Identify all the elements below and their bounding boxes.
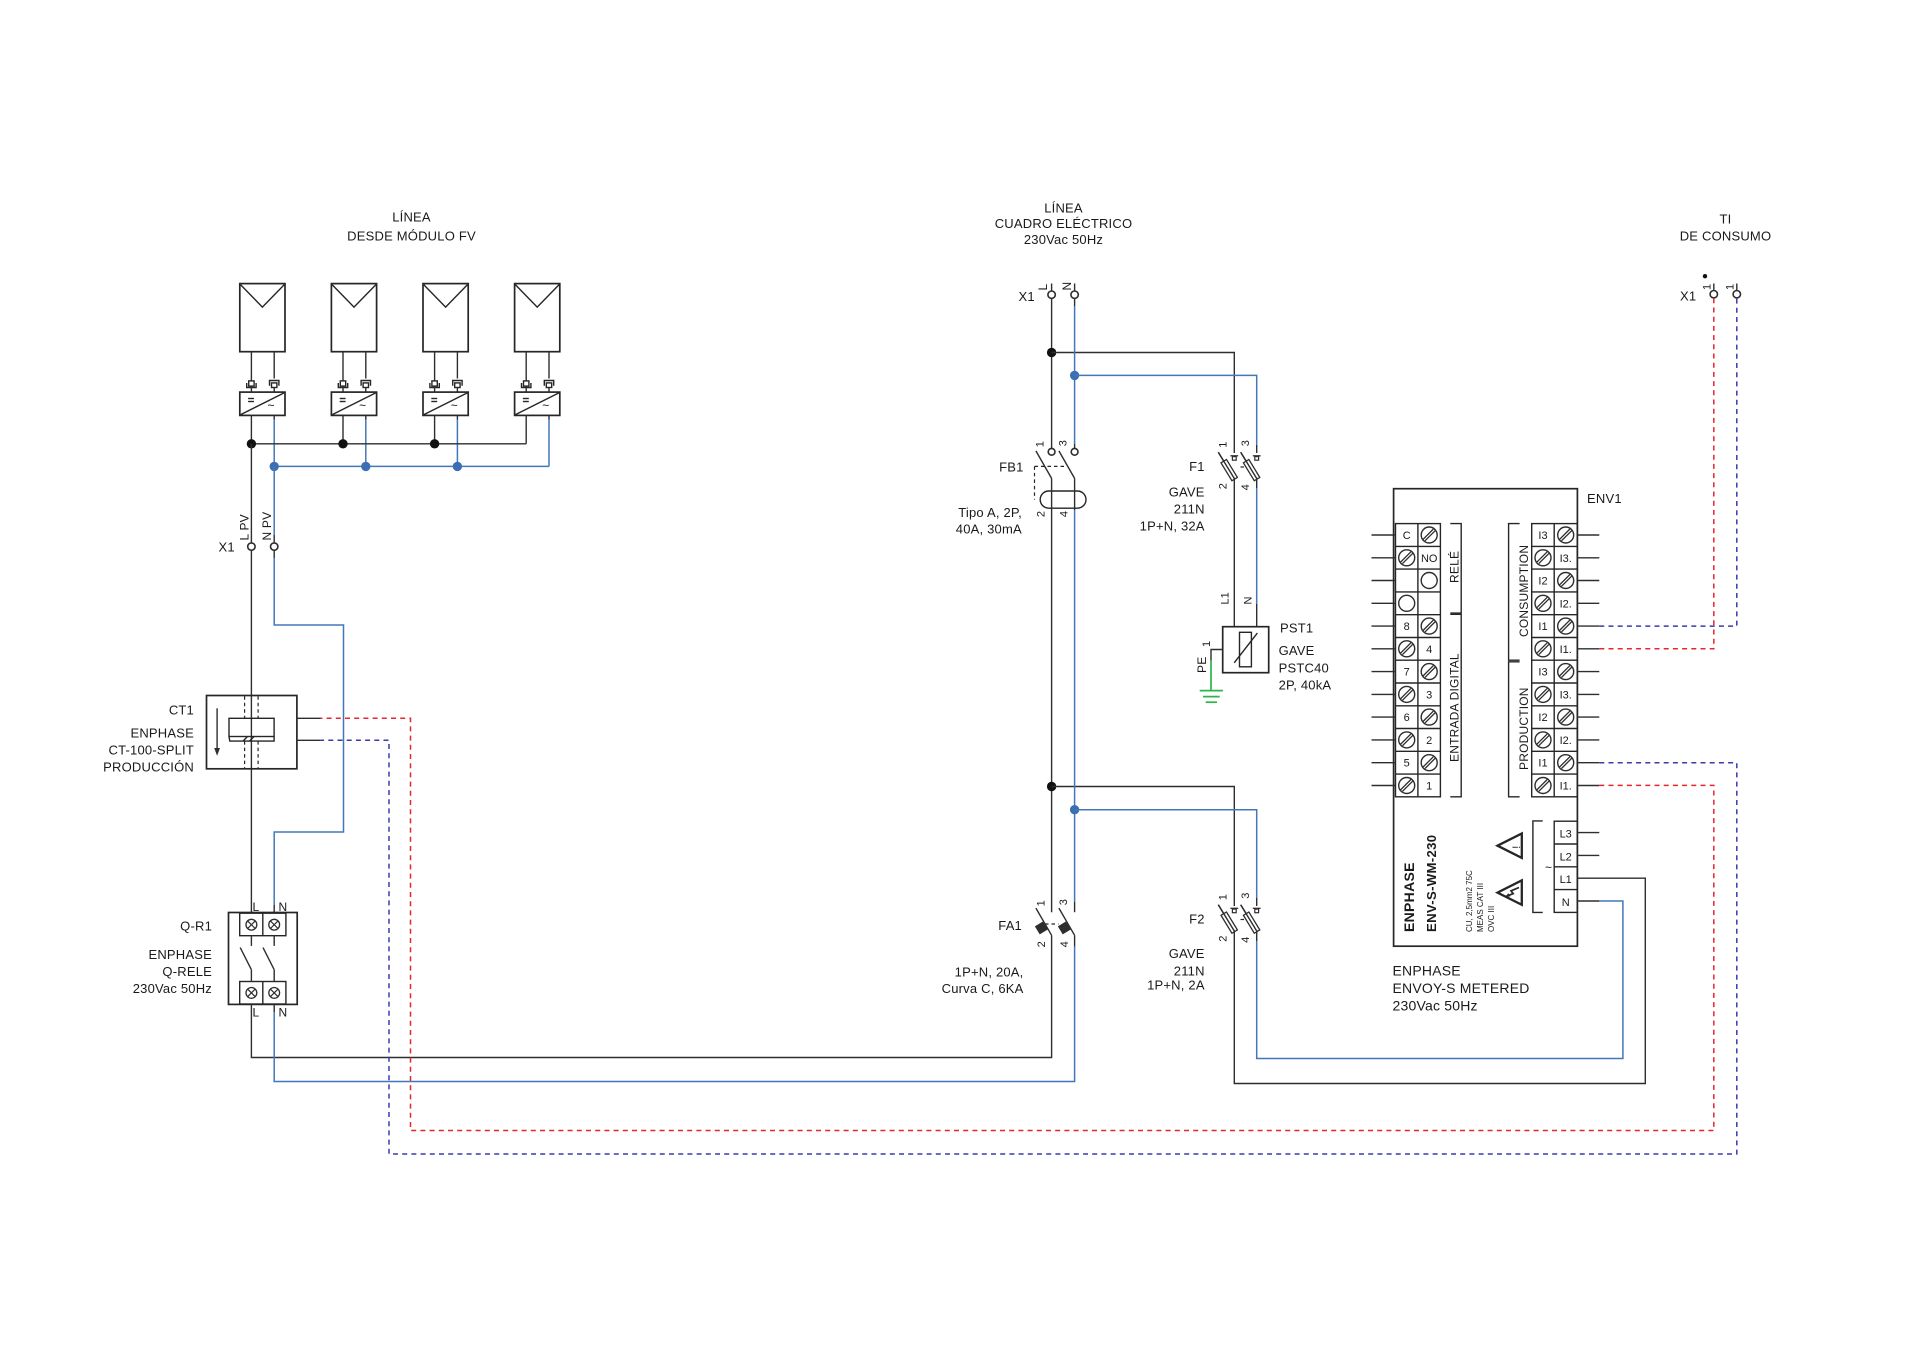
svg-text:ENPHASE: ENPHASE <box>1393 963 1461 979</box>
svg-text:L2: L2 <box>1560 851 1572 863</box>
wire: L from X1 to FB1 <box>1051 298 1053 448</box>
svg-text:FA1: FA1 <box>998 918 1022 933</box>
svg-text:L1: L1 <box>1560 874 1572 886</box>
PST1 pin 1 to PE <box>1201 641 1223 661</box>
stub left row 3 <box>1372 580 1396 582</box>
PV module PV1 with microinverter W1 <box>240 284 285 416</box>
node: N branch to F1 (blue) <box>1070 371 1079 380</box>
wire: L PV down to X1 <box>250 444 252 543</box>
bracket ENTRADA DIGITAL <box>1448 614 1462 797</box>
breaker FA1 (1P+N 20A curva C) <box>1035 899 1075 947</box>
svg-text:4: 4 <box>1059 511 1071 517</box>
svg-text:1P+N, 20A,: 1P+N, 20A, <box>955 965 1024 980</box>
screw terminal right row 2 <box>1535 550 1551 566</box>
screw terminal right row 5 <box>1558 618 1574 634</box>
screw terminal left row 8 <box>1399 686 1415 702</box>
svg-text:I1.: I1. <box>1560 644 1572 656</box>
wire: F2 L1 out to ENV1 L1 <box>1234 878 1645 1083</box>
svg-text:1: 1 <box>1725 284 1737 290</box>
svg-text:RELÉ: RELÉ <box>1447 551 1462 583</box>
title: linea cuadro electrico <box>995 201 1133 248</box>
svg-text:L PV: L PV <box>237 514 251 540</box>
svg-text:ENVOY-S METERED: ENVOY-S METERED <box>1393 980 1530 996</box>
stub right row 10 <box>1577 739 1599 741</box>
stub right row 2 <box>1577 557 1599 559</box>
wire: L PV rail to Q-R1 <box>250 550 252 913</box>
svg-text:PE: PE <box>1195 657 1209 673</box>
svg-text:I3.: I3. <box>1560 553 1572 565</box>
svg-text:GAVE: GAVE <box>1169 946 1205 961</box>
ENV1 left terminal strip (RELE / ENTRADA DIGITAL) <box>1396 524 1441 797</box>
node: L branch to F2 <box>1047 782 1056 791</box>
svg-text:DESDE MÓDULO FV: DESDE MÓDULO FV <box>347 229 476 244</box>
ENV1 right terminal strip (CONSUMPTION / PRODUCTION) <box>1532 524 1578 797</box>
svg-text:1: 1 <box>1426 781 1432 793</box>
screw terminal left row 12 <box>1399 778 1415 794</box>
terminal X1 L PV <box>237 514 255 550</box>
svg-text:X1: X1 <box>1019 289 1035 304</box>
svg-text:MEAS CAT III: MEAS CAT III <box>1476 883 1485 932</box>
svg-text:N: N <box>1243 597 1255 605</box>
ENV1 Envoy-S box <box>1394 489 1578 947</box>
svg-text:230Vac 50Hz: 230Vac 50Hz <box>1393 998 1478 1014</box>
wire: FB1 N out down to FA1 (blue) <box>1074 478 1076 912</box>
wire: Q-R1 L output to FA1 <box>251 935 1051 1057</box>
screw terminal right row 1 <box>1558 527 1574 543</box>
terminal X1 TI-1 <box>1702 284 1718 298</box>
stub left row 9 <box>1372 716 1396 718</box>
svg-text:4: 4 <box>1240 484 1252 490</box>
svg-text:4: 4 <box>1059 941 1071 947</box>
terminal X1 TI-2 <box>1725 284 1741 298</box>
svg-text:8: 8 <box>1404 621 1410 633</box>
wire: branch L to F2 <box>1052 787 1235 907</box>
wire inverter 2 L output <box>342 415 344 443</box>
wire: branch L to F1 <box>1052 353 1235 454</box>
svg-text:~: ~ <box>1545 861 1552 875</box>
label F2 block <box>1147 912 1205 993</box>
screw terminal left row 9 <box>1421 709 1437 725</box>
label FB1 block <box>956 460 1024 537</box>
svg-text:ENV-S-WM-230: ENV-S-WM-230 <box>1424 835 1439 932</box>
screw terminal right row 10 <box>1535 732 1551 748</box>
svg-text:X1: X1 <box>219 540 235 555</box>
svg-text:I1: I1 <box>1538 621 1547 633</box>
round terminal left row 4 <box>1399 595 1415 611</box>
ground PE <box>1195 657 1223 703</box>
svg-text:2: 2 <box>1426 735 1432 747</box>
svg-text:4: 4 <box>1426 644 1432 656</box>
stub left row 4 <box>1372 602 1396 604</box>
round terminal left row 3 <box>1421 573 1437 589</box>
node: L branch to F1 <box>1047 348 1056 357</box>
screw terminal left row 11 <box>1421 755 1437 771</box>
fuse F1 pole 2 <box>1241 452 1261 481</box>
wire: branch N to F1 (blue) <box>1075 375 1257 453</box>
F1 pin labels <box>1217 440 1252 490</box>
svg-text:C: C <box>1403 530 1411 542</box>
svg-text:3: 3 <box>1058 899 1070 905</box>
svg-text:1: 1 <box>1201 641 1213 647</box>
label FA1 block <box>942 918 1024 996</box>
stub right row 7 <box>1577 671 1599 673</box>
svg-text:I1.: I1. <box>1560 781 1572 793</box>
ENV1 L3 L2 L1 N terminal strip <box>1554 821 1577 912</box>
svg-text:I3: I3 <box>1538 667 1547 679</box>
fuse F1 pole 1 <box>1218 452 1238 481</box>
node: N bus junction 1 <box>270 462 279 471</box>
svg-text:1: 1 <box>1217 442 1229 448</box>
svg-text:4: 4 <box>1240 937 1252 943</box>
dashed red: production CT I1* to CT1 <box>321 718 1714 1130</box>
wire inverter 3 L output <box>434 415 436 443</box>
svg-text:2: 2 <box>1036 941 1048 947</box>
dashed blue: consumption CT I1 to TI terminal 2 <box>1599 298 1737 626</box>
svg-text:I2.: I2. <box>1560 598 1572 610</box>
wire: F2 N out to ENV1 N (blue) <box>1257 901 1623 1059</box>
svg-text:F1: F1 <box>1189 459 1205 474</box>
svg-text:7: 7 <box>1404 667 1410 679</box>
bracket PRODUCTION <box>1509 662 1531 797</box>
svg-text:N: N <box>279 1006 288 1020</box>
wire: Q-R1 N output to FA1 (blue) <box>274 935 1074 1081</box>
label PST1 block <box>1279 621 1332 693</box>
wire inverter 3 N output <box>456 415 458 466</box>
svg-text:1: 1 <box>1702 284 1714 290</box>
svg-text:FB1: FB1 <box>999 460 1023 475</box>
svg-text:211N: 211N <box>1174 964 1205 979</box>
wire: AC L bus from inverters <box>251 443 526 445</box>
svg-text:CT1: CT1 <box>169 703 194 718</box>
stub left row 8 <box>1372 693 1396 695</box>
svg-text:3: 3 <box>1240 440 1252 446</box>
stub right row 11 <box>1577 762 1599 764</box>
stub L3 <box>1577 832 1599 834</box>
svg-text:GAVE: GAVE <box>1279 643 1315 658</box>
svg-text:TI: TI <box>1720 212 1732 227</box>
stub left row 7 <box>1372 671 1396 673</box>
wire inverter 4 L output <box>525 415 527 443</box>
svg-text:I2.: I2. <box>1560 735 1572 747</box>
node: N bus junction 3 <box>453 462 462 471</box>
stub L2 <box>1577 854 1599 856</box>
svg-text:OVC III: OVC III <box>1487 906 1496 932</box>
svg-text:CONSUMPTION: CONSUMPTION <box>1517 545 1531 637</box>
svg-text:L1: L1 <box>1220 592 1232 604</box>
svg-text:Q-RELE: Q-RELE <box>162 964 212 979</box>
node: N branch to F2 (blue) <box>1070 805 1079 814</box>
svg-text:ENPHASE: ENPHASE <box>1401 862 1417 932</box>
stub right row 1 <box>1577 534 1599 536</box>
svg-text:ENPHASE: ENPHASE <box>148 947 212 962</box>
warning triangle exclamation <box>1498 834 1524 858</box>
bracket RELE <box>1447 524 1462 614</box>
PV module PV2 with microinverter W2 <box>331 284 376 416</box>
label L1 N at PST1 <box>1220 592 1255 604</box>
node: L bus junction 3 <box>430 439 439 448</box>
wire: N PV bypass around CT1 (blue) <box>274 550 343 913</box>
label Q-R1 block <box>133 919 212 997</box>
svg-text:Q-R1: Q-R1 <box>180 919 212 934</box>
svg-text:I2: I2 <box>1538 576 1547 588</box>
svg-text:2: 2 <box>1035 511 1047 517</box>
stub left row 11 <box>1372 762 1396 764</box>
svg-text:I1: I1 <box>1538 758 1547 770</box>
dashed red: consumption CT I1* to TI terminal 1 <box>1599 298 1714 649</box>
svg-text:Tipo A, 2P,: Tipo A, 2P, <box>958 505 1022 520</box>
screw terminal right row 7 <box>1558 664 1574 680</box>
svg-text:N PV: N PV <box>260 512 274 541</box>
svg-text:1P+N, 32A: 1P+N, 32A <box>1140 519 1205 534</box>
svg-text:I2: I2 <box>1538 712 1547 724</box>
svg-text:230Vac 50Hz: 230Vac 50Hz <box>1024 232 1103 247</box>
surge protector PST1 (GAVE PSTC40) <box>1223 627 1269 673</box>
screw terminal right row 11 <box>1558 755 1574 771</box>
svg-text:3: 3 <box>1426 689 1432 701</box>
svg-text:PRODUCTION: PRODUCTION <box>1517 687 1531 770</box>
PV module PV3 with microinverter W3 <box>423 284 468 416</box>
svg-text:L3: L3 <box>1560 829 1572 841</box>
fuse F2 pole 1 <box>1218 905 1238 934</box>
wire: branch N to F2 (blue) <box>1075 810 1257 906</box>
svg-text:L: L <box>1036 284 1050 291</box>
svg-text:2: 2 <box>1217 483 1229 489</box>
stub right row 12 <box>1577 785 1599 787</box>
screw terminal right row 9 <box>1558 709 1574 725</box>
svg-text:GAVE: GAVE <box>1169 485 1205 500</box>
wire inverter 4 N output <box>548 415 550 466</box>
wire: N from X1 to FB1 (blue) <box>1074 298 1076 448</box>
svg-text:ENPHASE: ENPHASE <box>130 726 194 741</box>
svg-text:1: 1 <box>1034 441 1046 447</box>
F1 pole linkage dash <box>1241 466 1247 468</box>
stub right row 8 <box>1577 693 1599 695</box>
svg-text:40A, 30mA: 40A, 30mA <box>956 522 1022 537</box>
svg-text:2P, 40kA: 2P, 40kA <box>1279 678 1332 693</box>
screw terminal left row 5 <box>1421 618 1437 634</box>
label CT1 block <box>103 703 194 775</box>
svg-text:230Vac 50Hz: 230Vac 50Hz <box>133 981 212 996</box>
stub right row 6 <box>1577 648 1599 650</box>
screw terminal left row 2 <box>1399 550 1415 566</box>
svg-text:1P+N, 2A: 1P+N, 2A <box>1147 978 1205 993</box>
svg-text:PSTC40: PSTC40 <box>1279 660 1329 675</box>
stub right row 4 <box>1577 602 1599 604</box>
svg-text:Curva C, 6KA: Curva C, 6KA <box>942 981 1024 996</box>
bracket CONSUMPTION <box>1509 524 1531 661</box>
stub right row 9 <box>1577 716 1599 718</box>
wire inverter 2 N output <box>365 415 367 466</box>
node: L bus junction 1 <box>247 439 256 448</box>
svg-text:PRODUCCIÓN: PRODUCCIÓN <box>103 760 194 775</box>
title: linea desde modulo FV <box>347 210 476 244</box>
svg-text:F2: F2 <box>1189 912 1205 927</box>
svg-text:ENTRADA DIGITAL: ENTRADA DIGITAL <box>1448 653 1462 762</box>
PV module PV4 with microinverter W4 <box>515 284 560 416</box>
node: L bus junction 2 <box>338 439 347 448</box>
wire: CT1 secondary stub top <box>297 717 321 719</box>
F2 pin labels <box>1217 893 1252 943</box>
wire inverter 1 L output <box>250 415 252 443</box>
screw terminal right row 4 <box>1535 595 1551 611</box>
stub left row 1 <box>1372 534 1396 536</box>
svg-text:PST1: PST1 <box>1280 621 1313 636</box>
svg-text:1: 1 <box>1036 900 1048 906</box>
terminal X1 N (cuadro) <box>1060 282 1078 299</box>
bracket AC with tilde <box>1533 821 1552 913</box>
relay Q-R1 (ENPHASE Q-RELE) <box>229 900 298 1020</box>
label ENVOY-S METERED block <box>1393 963 1530 1014</box>
svg-text:!: ! <box>1511 846 1523 849</box>
svg-text:DE CONSUMO: DE CONSUMO <box>1680 229 1772 244</box>
screw terminal left row 7 <box>1421 664 1437 680</box>
svg-text:N: N <box>279 900 288 914</box>
screw terminal left row 6 <box>1399 641 1415 657</box>
stub left row 5 <box>1372 625 1396 627</box>
svg-text:3: 3 <box>1057 440 1069 446</box>
stub left row 6 <box>1372 648 1396 650</box>
svg-text:211N: 211N <box>1174 502 1205 517</box>
svg-text:NO: NO <box>1421 553 1438 565</box>
stub left row 10 <box>1372 739 1396 741</box>
breaker FB1 (RCD Tipo A 2P 40A 30mA) <box>1034 440 1086 517</box>
title: TI de consumo <box>1680 212 1772 244</box>
wire: F1 L1 down to PST1 <box>1233 478 1235 627</box>
F2 pole linkage dash <box>1241 919 1247 921</box>
svg-text:LÍNEA: LÍNEA <box>392 210 431 225</box>
svg-text:CUADRO ELÉCTRICO: CUADRO ELÉCTRICO <box>995 216 1133 231</box>
svg-text:LÍNEA: LÍNEA <box>1044 201 1083 216</box>
rotated small specs text <box>1465 870 1496 932</box>
screw terminal left row 1 <box>1421 527 1437 543</box>
svg-text:L: L <box>253 900 260 914</box>
svg-text:N: N <box>1060 282 1074 291</box>
svg-text:I3: I3 <box>1538 530 1547 542</box>
terminal X1 L (cuadro) <box>1036 284 1055 299</box>
svg-text:1: 1 <box>1217 894 1229 900</box>
node: N bus junction 2 <box>361 462 370 471</box>
wire inverter 1 N output <box>273 415 275 466</box>
warning triangle lightning <box>1498 880 1522 904</box>
stub left row 12 <box>1372 785 1396 787</box>
svg-text:CT-100-SPLIT: CT-100-SPLIT <box>109 743 195 758</box>
label F1 block <box>1140 459 1205 534</box>
screw terminal right row 6 <box>1535 641 1551 657</box>
svg-text:L: L <box>253 1006 260 1020</box>
screw terminal right row 8 <box>1535 686 1551 702</box>
wire: F1 N down to PST1 (blue) <box>1256 478 1258 627</box>
fuse F2 pole 2 <box>1241 905 1261 934</box>
screw terminal left row 10 <box>1399 732 1415 748</box>
wire: AC N bus from inverters (blue) <box>274 465 549 467</box>
svg-text:6: 6 <box>1404 712 1410 724</box>
CT1 current transformer (ENPHASE CT-100-SPLIT) <box>207 696 297 769</box>
svg-text:X1: X1 <box>1680 289 1696 304</box>
svg-text:5: 5 <box>1404 758 1410 770</box>
screw terminal right row 12 <box>1535 778 1551 794</box>
svg-text:3: 3 <box>1240 893 1252 899</box>
wire: FB1 L out down to FA1 <box>1051 478 1053 912</box>
svg-text:I3.: I3. <box>1560 689 1572 701</box>
polarity dot TI <box>1703 274 1707 278</box>
dashed blue: production CT I1 to CT1 <box>321 740 1737 1154</box>
screw terminal right row 3 <box>1558 573 1574 589</box>
wire: N PV down to X1 (blue) <box>273 466 275 543</box>
svg-text:2: 2 <box>1217 936 1229 942</box>
svg-text:N: N <box>1562 897 1570 909</box>
svg-text:CU, 2,5mm2 75C: CU, 2,5mm2 75C <box>1465 870 1474 932</box>
stub right row 3 <box>1577 580 1599 582</box>
stub left row 2 <box>1372 557 1396 559</box>
stub right row 5 <box>1577 625 1599 627</box>
wire: CT1 secondary stub bottom <box>297 739 321 741</box>
terminal X1 N PV <box>260 512 278 551</box>
svg-text:ENV1: ENV1 <box>1587 491 1622 506</box>
